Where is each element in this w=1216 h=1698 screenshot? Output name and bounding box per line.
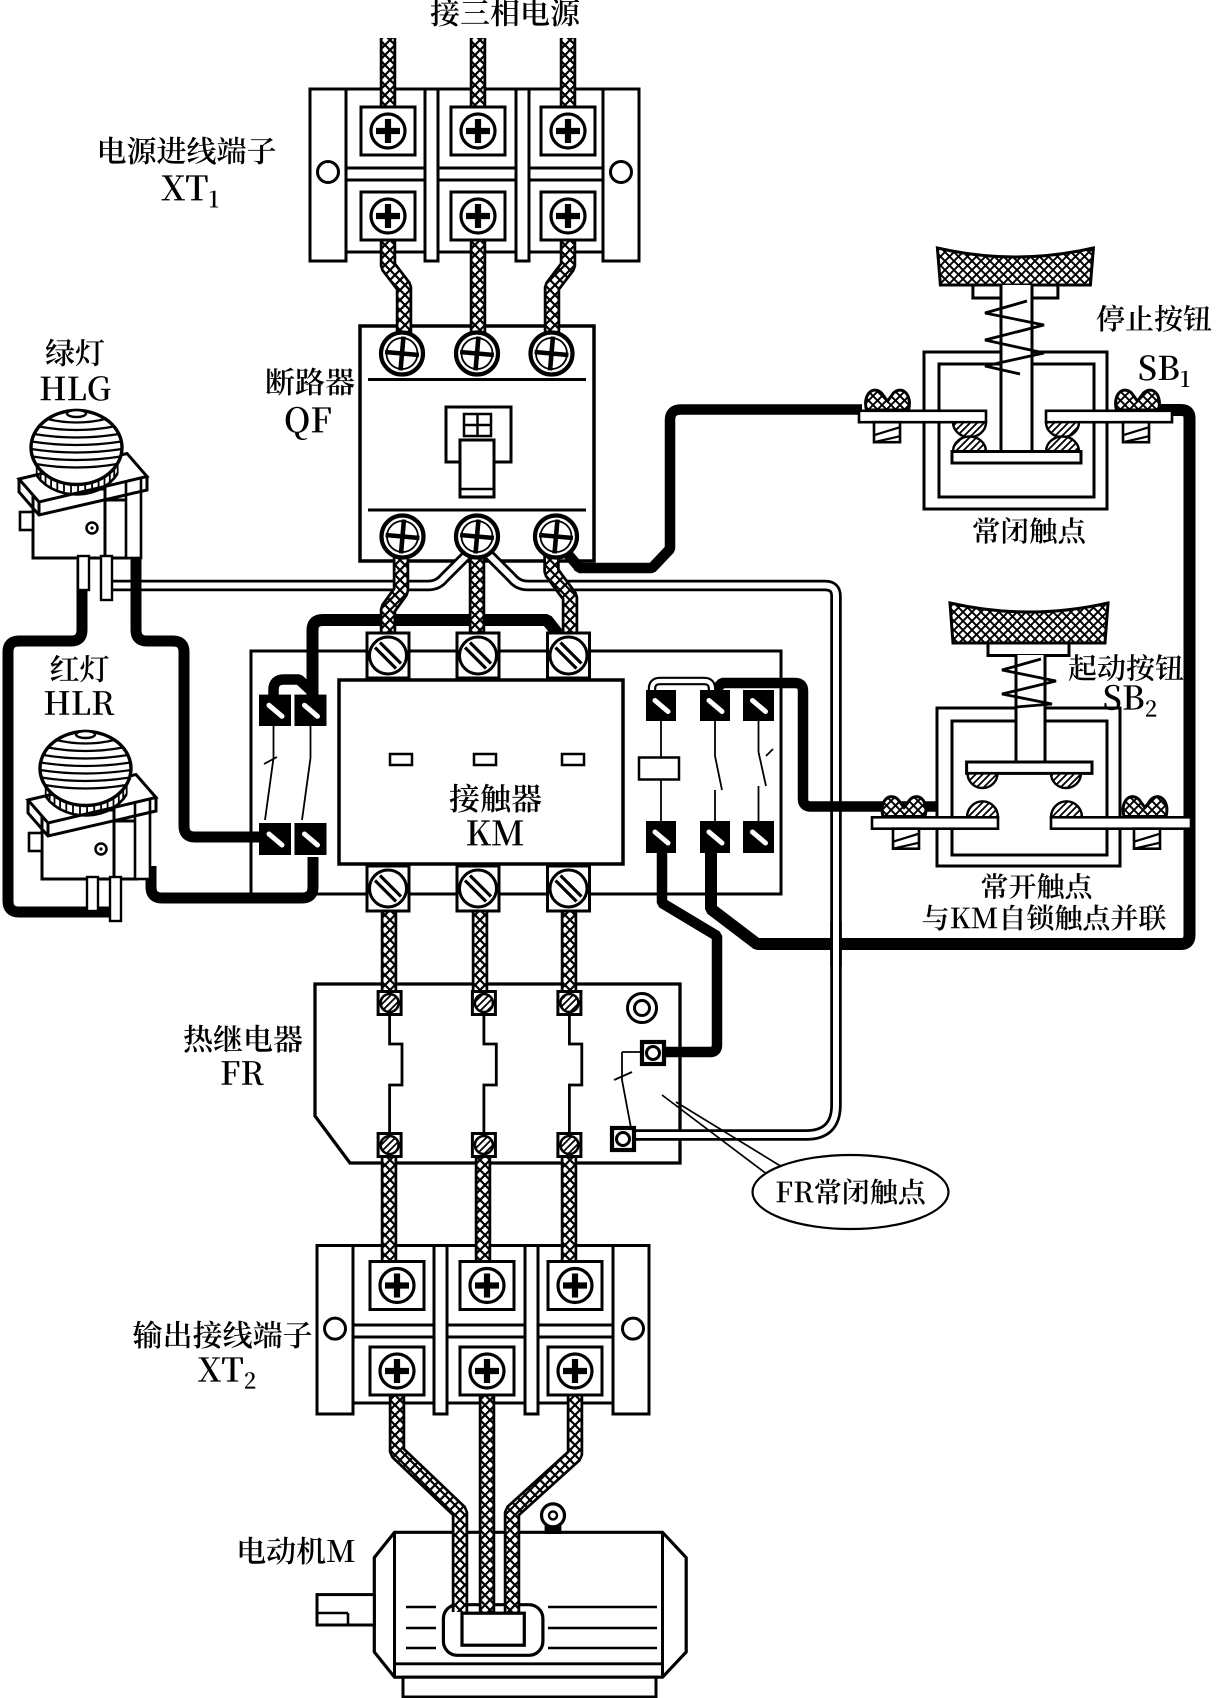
wire XT2 to motor V — [479, 1392, 496, 1612]
FR top terminals — [378, 992, 581, 1015]
wire green lamp HLG pin to red lamp HLR pin (common) — [8, 560, 112, 912]
terminal block XT1 — [310, 89, 639, 261]
red lamp HLR lamp dome lens — [40, 731, 131, 806]
label: circuit breaker — [266, 368, 354, 396]
red lamp HLR lamp pins — [87, 877, 121, 921]
SB2 moving contact bar — [967, 762, 1092, 773]
FR heater element 3 — [569, 1015, 581, 1133]
XT1 screw terminals row 2 — [361, 192, 595, 240]
start button SB2 cap — [950, 603, 1108, 643]
red lamp HLR lamp knurled collar — [46, 784, 127, 815]
wire XT1 to QF pole 1 — [388, 236, 404, 350]
SB2 left screw — [893, 829, 919, 849]
motor eyebolt — [542, 1504, 565, 1534]
wire KM to FR pole 3 — [561, 900, 578, 998]
wire L2 from three-phase supply into XT1 — [470, 38, 487, 112]
wire QF to KM pole 3 — [552, 555, 571, 648]
label: normally open contact — [982, 873, 1092, 899]
label: XT2 designator — [198, 1357, 255, 1388]
FR adjustment dial — [628, 994, 657, 1023]
button neck — [973, 285, 1058, 298]
green lamp HLG lamp dome lens — [31, 410, 122, 485]
SB2 neck — [988, 643, 1069, 656]
label: FR designator — [222, 1061, 264, 1085]
QF top terminals — [381, 333, 573, 375]
label: power inlet terminal block — [100, 137, 275, 165]
wire FR to XT2 pole 2 — [475, 1152, 492, 1280]
wire FR to XT2 pole 1 — [381, 1152, 398, 1280]
button cap — [937, 248, 1093, 285]
KM left aux contact switch blades — [264, 726, 311, 820]
FR heater element 1 — [390, 1015, 402, 1133]
QF bottom terminals — [382, 516, 578, 558]
motor cooling fins — [406, 1607, 657, 1648]
FR heater element 2 — [484, 1015, 496, 1133]
XT1 screw terminals row 1 — [361, 107, 595, 155]
SB2 plunger stem — [1016, 655, 1045, 762]
wire XT1 to QF pole 3 — [552, 236, 568, 350]
wire KM aux contact bottom (col1) to FR NC upper terminal — [662, 848, 717, 1052]
wire green lamp HLG to KM aux contact col1 lower — [136, 556, 259, 837]
wire L1 from three-phase supply into XT1 — [380, 38, 397, 112]
QF switch mechanism — [446, 407, 511, 497]
SB2 left wing nut — [882, 797, 926, 817]
label: XT1 designator — [161, 175, 218, 207]
label: SB1 designator — [1140, 355, 1190, 387]
SB1 body inner — [939, 364, 1094, 497]
wire QF L3 bottom terminal to stop button SB1 left terminal — [560, 410, 862, 569]
wire KM coil top / latch contact top to start button SB2 left terminal — [706, 683, 940, 807]
SB1 right wing nut — [1116, 390, 1160, 410]
label: normally closed contact — [973, 517, 1084, 544]
terminal block XT2 — [317, 1246, 649, 1415]
green lamp HLG lamp pins — [78, 556, 112, 600]
KM top power terminals — [367, 633, 590, 678]
wire red lamp HLR to KM aux contact col2 lower — [151, 857, 313, 898]
KM coil terminal bracket col1 to col2 — [652, 681, 712, 697]
wire QF to KM pole 2 — [469, 555, 486, 648]
label: green lamp — [46, 339, 104, 367]
SB1 right terminal plate — [1046, 411, 1172, 422]
stop button SB1 — [937, 248, 1093, 298]
SB1 NC contact right (closed) — [1046, 422, 1079, 451]
wire XT2 to motor U — [397, 1392, 460, 1612]
motor base — [403, 1677, 656, 1697]
FR NC contact upper terminal — [642, 1042, 664, 1064]
label: SB2 designator — [1104, 685, 1156, 717]
KM vent slots — [390, 754, 584, 765]
wire QF to KM pole 1 — [388, 555, 401, 648]
label: QF designator — [286, 407, 331, 440]
wire KM to FR pole 1 — [381, 900, 398, 998]
label: output terminal block — [133, 1320, 311, 1348]
SB2 body outer — [937, 708, 1120, 866]
control wire (outline style) QF L2 terminal to FR NC contact lower terminal — [485, 551, 836, 1135]
KM bottom power terminals — [367, 866, 590, 911]
green lamp HLG lamp bezel plate — [19, 454, 147, 516]
wire FR to XT2 pole 3 — [561, 1152, 578, 1280]
KM coil symbol — [639, 721, 679, 821]
label: parallel with KM self-latching contact — [923, 904, 1166, 930]
red lamp HLR lamp body — [29, 799, 150, 879]
SB1 left screw — [874, 422, 900, 442]
label: connect three-phase supply — [431, 0, 579, 27]
label: contactor — [450, 784, 542, 813]
green lamp HLG lamp knurled collar — [37, 463, 118, 494]
FR bottom terminals — [378, 1134, 581, 1157]
wire L3 from three-phase supply into XT1 — [560, 38, 577, 112]
motor M body — [374, 1532, 686, 1677]
SB1 body outer — [924, 352, 1107, 509]
contactor KM outer enclosure — [251, 651, 781, 894]
label: thermal relay — [184, 1025, 302, 1053]
SB2 right wing nut — [1123, 797, 1167, 817]
motor terminal box inner plate — [462, 1613, 524, 1645]
label: red lamp — [51, 655, 109, 683]
control wire crossing over latch bus — [830, 922, 842, 966]
label: FR normally closed contact (in ellipse) — [777, 1178, 925, 1204]
SB1 plunger stem — [1001, 285, 1032, 451]
circuit breaker QF body — [360, 326, 594, 561]
SB2 right screw — [1134, 829, 1160, 849]
SB1 contact carrier bar — [952, 452, 1081, 464]
label: start button — [1069, 654, 1184, 681]
label: HLR designator — [45, 691, 114, 715]
XT2 screw terminals row 2 — [370, 1347, 602, 1395]
wire XT2 to motor W — [512, 1392, 575, 1612]
tip of lamp feed wire entering KM L3 terminal — [546, 621, 558, 634]
SB1 NC contact left (closed) — [953, 422, 986, 451]
wire XT1 to QF pole 2 — [470, 236, 487, 350]
callout ellipse FR NC contact label — [753, 1155, 949, 1229]
wire KM L3 power terminal tap to lamp aux contacts — [313, 620, 559, 700]
label: HLG designator — [41, 376, 111, 401]
SB1 left terminal plate — [859, 411, 986, 422]
KM latch contact blades — [715, 721, 773, 821]
motor terminal box — [443, 1605, 543, 1656]
wire KM to FR pole 2 — [472, 900, 489, 998]
KM left aux contact terminals upper — [259, 695, 327, 726]
SB2 fixed contacts — [967, 801, 1082, 817]
SB2 right terminal plate — [1051, 817, 1191, 828]
motor shaft — [317, 1595, 374, 1625]
branch of lamp feed wire to KM aux contact column 1 — [274, 680, 313, 701]
wire SB1 right terminal down right side to SB2 right terminal and KM latch bus — [711, 410, 1190, 944]
label: stop button — [1097, 305, 1212, 332]
FR NC contact lower terminal — [612, 1128, 634, 1150]
FR NC contact symbol — [614, 1052, 642, 1128]
XT2 screw terminals row 1 — [370, 1262, 602, 1310]
contactor KM inner body — [339, 680, 623, 864]
SB1 right screw — [1123, 422, 1149, 442]
KM latch contact terminals col3 — [743, 690, 774, 853]
SB2 body inner — [952, 721, 1107, 855]
KM coil terminals col1 — [646, 690, 676, 853]
SB2 moving contacts — [968, 773, 1082, 788]
KM left aux contact terminals lower — [259, 823, 327, 855]
label: KM designator — [467, 820, 523, 845]
label: motor M — [240, 1537, 355, 1565]
control wire (outline style) QF L2 terminal to green lamp HLG — [101, 551, 471, 586]
green lamp HLG lamp body — [20, 478, 141, 558]
SB2 left terminal plate — [872, 817, 998, 828]
SB2 spring — [1002, 659, 1056, 707]
SB1 left wing nut — [866, 390, 910, 410]
thermal relay FR body — [315, 984, 680, 1163]
KM latch contact terminals col2 — [700, 690, 730, 853]
callout pointer lines to FR NC contact — [662, 1095, 787, 1178]
red lamp HLR lamp bezel plate — [28, 775, 156, 837]
SB1 spring — [985, 301, 1044, 374]
